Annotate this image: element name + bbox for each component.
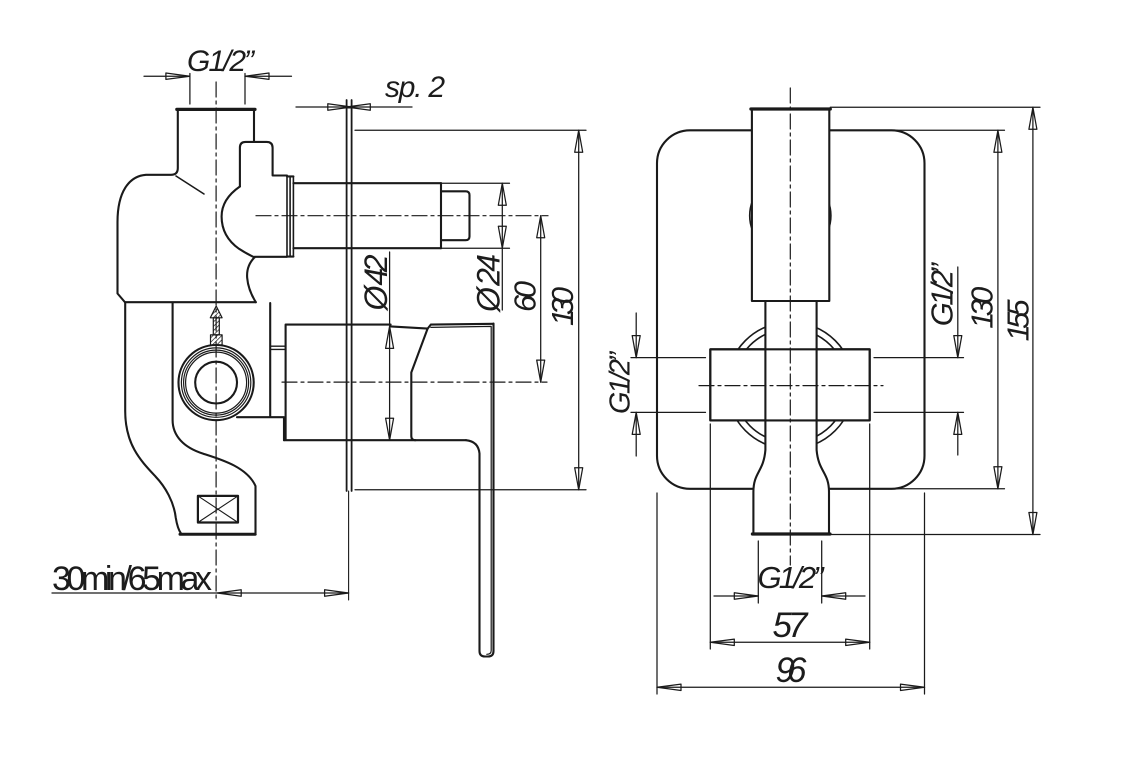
outlet pipe thread (293, 183, 441, 248)
outlet flange (287, 176, 293, 256)
svg-text:sp. 2: sp. 2 (385, 71, 445, 104)
svg-text:G1/2”: G1/2” (925, 262, 960, 327)
pipe groove (440, 183, 442, 248)
155 dimension (1029, 107, 1037, 534)
bell bottom cap (752, 532, 830, 535)
svg-text:130: 130 (964, 287, 999, 329)
crosspiece body (710, 349, 869, 420)
escutcheon circles (727, 175, 854, 449)
svg-text:30min/65max: 30min/65max (52, 560, 212, 598)
cartridge circle rings (179, 345, 254, 420)
G1/2 top dimension (166, 73, 269, 79)
G1/2 right dimension (954, 336, 962, 435)
60 dimension (537, 216, 545, 382)
ball lower contour (247, 257, 256, 302)
wall plate edge-on (347, 100, 352, 491)
svg-text:60: 60 (508, 281, 543, 312)
57 dimension (710, 639, 869, 645)
svg-text:96: 96 (776, 651, 808, 690)
blend diagonal (176, 176, 204, 194)
inlet fitting right edge (253, 111, 255, 142)
cartridge knob (240, 142, 287, 187)
pipe nipple end (441, 191, 470, 240)
center axes left view (216, 82, 548, 600)
svg-text:G1/2”: G1/2” (605, 351, 637, 414)
tube strokes (753, 301, 829, 534)
center axes right view (699, 88, 883, 565)
cartridge housing (237, 303, 466, 440)
svg-text:G1/2”: G1/2” (758, 560, 826, 595)
wall plate front (657, 130, 925, 489)
130 dimension right view (994, 130, 1002, 489)
valve body outline (118, 111, 256, 534)
30min/65max dimension (217, 590, 348, 596)
130 dimension left view (575, 130, 583, 490)
svg-text:Ø 42: Ø 42 (358, 254, 394, 311)
top pipe front (752, 109, 829, 301)
drain symbol box (198, 496, 238, 523)
G1/2 left dimension (632, 336, 640, 435)
svg-text:G1/2”: G1/2” (187, 45, 256, 78)
dia 42 dimension (386, 326, 394, 440)
svg-text:57: 57 (773, 606, 810, 645)
inlet fitting top cap (177, 108, 255, 111)
svg-text:130: 130 (545, 287, 580, 326)
ball flange joint line (255, 256, 288, 258)
foot bottom thick edge (180, 533, 255, 536)
valve ball arc (222, 187, 255, 258)
sp.2 dimension (328, 104, 371, 110)
plate lower extension (348, 491, 350, 600)
hatched temperature arrow (210, 306, 222, 345)
vertical tube and bell (fill mask) (753, 301, 829, 534)
svg-text:Ø 24: Ø 24 (471, 254, 507, 313)
crosspiece edges redrawn (710, 349, 869, 420)
96 dimension (657, 684, 925, 690)
escutcheon and handle (391, 324, 494, 657)
pipe diameter extension lines (441, 183, 510, 248)
top pipe cap (751, 107, 830, 110)
G1/2 bottom dimension (734, 593, 845, 599)
dia 24 dimension (498, 183, 506, 248)
svg-text:155: 155 (1001, 299, 1036, 342)
